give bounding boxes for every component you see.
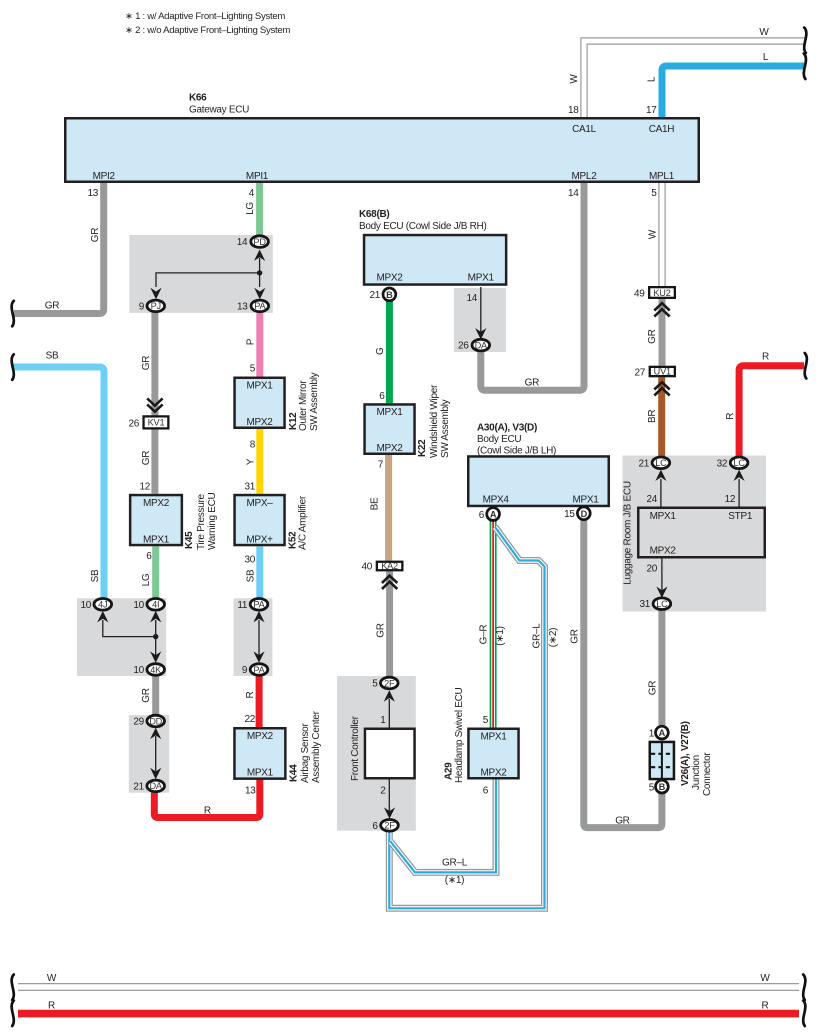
arrow into 4K — [150, 651, 161, 662]
wire GR KU2 to UV1 — [659, 299, 666, 366]
svg-text:DA: DA — [150, 781, 163, 791]
svg-text:UV1: UV1 — [654, 367, 671, 377]
svg-text:Luggage Room J/B ECU: Luggage Room J/B ECU — [623, 481, 634, 585]
connector LC pin 21 — [652, 457, 670, 469]
connector 2F pin 5 with arrow — [381, 677, 399, 689]
svg-text:PA: PA — [254, 301, 266, 311]
svg-text:W: W — [569, 74, 580, 84]
svg-text:SB: SB — [245, 569, 256, 582]
wire Y K12 pin8 to K52 pin31 — [256, 429, 263, 494]
svg-text:13: 13 — [245, 786, 256, 797]
wire R DA(21) to K44 pin13 — [154, 780, 259, 818]
svg-text:4J: 4J — [98, 600, 107, 610]
shield area Front Controller — [337, 676, 416, 831]
svg-text:4I: 4I — [152, 600, 159, 610]
chevron up below KU2 — [654, 303, 669, 316]
svg-text:W: W — [760, 973, 770, 984]
svg-text:5: 5 — [651, 188, 657, 199]
svg-text:B: B — [659, 782, 666, 792]
svg-text:K22: K22 — [417, 439, 428, 457]
ECU K52 A/C Amplifier — [235, 495, 309, 550]
lead lines LC to inner box — [661, 479, 739, 507]
svg-text:LC: LC — [733, 458, 745, 468]
svg-text:Headlamp Swivel ECU: Headlamp Swivel ECU — [454, 687, 465, 783]
svg-text:15: 15 — [564, 509, 575, 520]
svg-text:26: 26 — [128, 419, 139, 430]
shield area PD/PJ/PA — [129, 235, 272, 313]
svg-text:MPX1: MPX1 — [143, 534, 170, 545]
svg-text:MPX1: MPX1 — [480, 732, 507, 743]
lead lines 4J/4I to 4K with junction — [103, 620, 156, 659]
svg-text:21: 21 — [369, 290, 380, 301]
svg-text:MPX2: MPX2 — [480, 768, 507, 779]
lead line junction to PJ — [156, 273, 260, 287]
connector DA pin 26 — [472, 339, 490, 351]
svg-text:5: 5 — [372, 679, 378, 690]
svg-text:14: 14 — [568, 188, 579, 199]
svg-text:Windshield Wiper: Windshield Wiper — [429, 384, 440, 458]
svg-text:MPX1: MPX1 — [246, 381, 273, 392]
svg-text:KU2: KU2 — [653, 288, 670, 298]
svg-text:MPI1: MPI1 — [246, 171, 269, 182]
svg-text:(∗1): (∗1) — [445, 875, 464, 886]
svg-text:Tire Pressure: Tire Pressure — [196, 494, 207, 550]
wire GR KA2 to 2F(5) — [386, 571, 393, 677]
svg-text:31: 31 — [639, 599, 650, 610]
connector A pin 6 — [487, 508, 500, 521]
lead line PD to junction — [259, 258, 261, 273]
svg-text:R: R — [762, 352, 769, 363]
svg-text:GR: GR — [141, 451, 152, 465]
svg-text:MPX2: MPX2 — [376, 443, 403, 454]
arrow into PA(13) — [254, 288, 265, 299]
shield area 4J/4I/4K — [77, 598, 166, 676]
Luggage Room inner block MPX1/STP1/MPX2 — [638, 508, 765, 558]
lead line PA to PA — [258, 620, 260, 659]
svg-text:Body ECU (Cowl Side J/B RH): Body ECU (Cowl Side J/B RH) — [359, 221, 487, 232]
svg-text:49: 49 — [634, 289, 645, 300]
svg-text:6: 6 — [479, 510, 485, 521]
arrow into LC32 — [734, 470, 745, 481]
break squiggle W top right — [804, 28, 806, 54]
svg-text:MPX4: MPX4 — [483, 495, 510, 506]
lead line FC to 2F(6) — [388, 779, 390, 812]
ECU K45 Tire Pressure Warning ECU — [130, 492, 218, 550]
svg-text:Assembly Center: Assembly Center — [311, 710, 322, 783]
svg-text:PA: PA — [253, 665, 265, 675]
connector PA pin 13 — [251, 300, 269, 312]
arrow into LC31 — [656, 587, 667, 598]
wire GR 4K(10) to DD(29) — [152, 676, 159, 715]
svg-text:SB: SB — [46, 351, 59, 362]
arrow into LC21 — [655, 470, 666, 481]
wire G from B(21) to K22 pin6 — [386, 301, 393, 403]
ECU A30(A),V3(D) Body ECU (Cowl Side J/B LH) — [468, 423, 609, 506]
svg-text:STP1: STP1 — [728, 511, 753, 522]
svg-text:4: 4 — [249, 188, 255, 199]
Front Controller block — [350, 715, 415, 781]
svg-text:MPX2: MPX2 — [376, 273, 403, 284]
svg-text:(∗1): (∗1) — [495, 626, 506, 645]
svg-text:27: 27 — [634, 368, 645, 379]
shield area K68 DA — [454, 288, 506, 352]
connector KV1 pin 26 — [128, 416, 168, 429]
svg-text:Y: Y — [245, 458, 256, 465]
wire BE K22 pin7 to KA2 — [385, 455, 392, 561]
svg-text:G: G — [375, 347, 386, 355]
wire GR LC(31) to junction connector A(1) — [658, 610, 665, 727]
wire GR from D(15) of A30 to B(5) of junction connector — [584, 520, 662, 827]
svg-text:(∗2): (∗2) — [548, 628, 559, 647]
lead line to LC31 — [661, 559, 663, 592]
svg-text:Body ECU: Body ECU — [477, 434, 521, 445]
wire W from MPL1 pin 5 to KU2 — [658, 183, 665, 288]
svg-text:A/C Amplifier: A/C Amplifier — [298, 495, 309, 550]
connector 4K pin 10 — [147, 664, 165, 676]
svg-text:K66: K66 — [189, 92, 207, 103]
svg-text:24: 24 — [646, 494, 657, 505]
svg-text:MPX2: MPX2 — [143, 498, 170, 509]
svg-text:SB: SB — [90, 569, 101, 582]
svg-text:GR: GR — [615, 816, 629, 827]
svg-text:9: 9 — [139, 301, 145, 312]
connector DD pin 29 with arrow — [150, 728, 161, 739]
svg-text:20: 20 — [646, 564, 657, 575]
svg-text:Outer Mirror: Outer Mirror — [298, 380, 309, 431]
break squiggle GR left — [12, 301, 14, 327]
svg-text:GR: GR — [647, 329, 658, 343]
svg-text:K45: K45 — [184, 531, 195, 549]
connector KA2 pin 40 — [361, 561, 402, 573]
svg-text:GR: GR — [141, 356, 152, 370]
svg-text:11: 11 — [237, 600, 248, 611]
svg-text:LC: LC — [656, 599, 668, 609]
lead line junction to PA — [259, 273, 261, 287]
connector DA pin 21 — [147, 780, 165, 792]
svg-text:6: 6 — [372, 821, 378, 832]
connector B pin 21 — [383, 288, 396, 301]
svg-text:∗ 1 : w/ Adaptive Front–Lighti: ∗ 1 : w/ Adaptive Front–Lighting System — [125, 11, 285, 22]
svg-text:1: 1 — [380, 715, 386, 726]
svg-text:LG: LG — [245, 202, 256, 215]
break squiggle SB left — [12, 354, 14, 380]
connector PA pin 9 — [250, 664, 268, 676]
wire BR UV1 to LC(21) — [658, 377, 665, 457]
svg-text:L: L — [647, 76, 658, 82]
svg-text:21: 21 — [638, 458, 649, 469]
wire GR-L (*1) from A29 pin6 to 2F(6) — [391, 780, 497, 873]
chevron up below KA2 — [382, 576, 397, 589]
wire GR from MPI2 pin 13 to left break — [14, 183, 104, 314]
svg-text:GR: GR — [141, 688, 152, 702]
svg-text:MPI2: MPI2 — [93, 171, 116, 182]
svg-text:18: 18 — [568, 105, 579, 116]
svg-text:Gateway ECU: Gateway ECU — [189, 104, 249, 115]
svg-text:14: 14 — [237, 237, 248, 248]
svg-text:8: 8 — [250, 440, 256, 451]
svg-text:MPL2: MPL2 — [572, 171, 598, 182]
svg-text:GR–L: GR–L — [442, 858, 468, 869]
svg-text:LG: LG — [141, 573, 152, 586]
svg-text:GR: GR — [569, 629, 580, 643]
shield area PA11/PA9 — [234, 598, 273, 676]
svg-text:5: 5 — [649, 782, 655, 793]
wire GR from MPL2 pin 14 to DA(26) — [481, 183, 584, 390]
wire LG from MPI1 pin 4 to PD — [256, 183, 263, 238]
ECU K12 Outer Mirror SW Assembly — [235, 372, 320, 431]
wire L from CA1H pin 17 to right break — [662, 66, 804, 117]
svg-text:MPX2: MPX2 — [246, 417, 273, 428]
connector D pin 15 — [577, 507, 590, 520]
connector 2F pin 6 — [381, 820, 399, 832]
svg-text:9: 9 — [242, 665, 248, 676]
break squiggle L top right — [804, 54, 806, 80]
svg-text:22: 22 — [244, 714, 255, 725]
shield area DD/DA — [129, 715, 169, 793]
ECU K22 Windshield Wiper SW Assembly — [365, 384, 451, 458]
wire GR-L (*2) from A(6) of A30 to 2F(6) — [389, 527, 544, 908]
svg-text:CA1H: CA1H — [649, 124, 675, 135]
svg-text:PA: PA — [253, 600, 265, 610]
svg-text:W: W — [47, 973, 57, 984]
chevron up below UV1 — [654, 382, 669, 395]
svg-text:SW Assembly: SW Assembly — [440, 399, 451, 458]
arrow into 2F(6) — [384, 807, 395, 818]
break squiggle R right — [805, 353, 807, 379]
svg-text:13: 13 — [237, 301, 248, 312]
wire G-R (*1) from A(6) of A30 to A29 pin5 — [490, 521, 497, 728]
svg-text:GR: GR — [45, 301, 59, 312]
svg-text:6: 6 — [379, 391, 385, 402]
svg-text:6: 6 — [146, 551, 152, 562]
wire R PA(9) to K44 pin22 — [256, 676, 263, 727]
svg-text:K44: K44 — [289, 764, 300, 782]
chevron down above KV1 — [147, 398, 162, 411]
svg-text:(Cowl Side J/B LH): (Cowl Side J/B LH) — [477, 446, 556, 457]
svg-text:GR: GR — [375, 623, 386, 637]
wire W bottom bus — [18, 983, 799, 991]
svg-text:GR: GR — [90, 228, 101, 242]
svg-text:10: 10 — [133, 600, 144, 611]
connector LC pin 31 — [653, 598, 671, 610]
lead line K68 MPX1 to DA — [480, 287, 482, 334]
svg-text:P: P — [245, 338, 256, 345]
wire LG K45 pin6 to 4I(10) — [152, 546, 159, 598]
svg-text:K68(B): K68(B) — [359, 209, 389, 220]
connector KU2 pin 49 — [634, 287, 675, 299]
svg-text:31: 31 — [244, 482, 255, 493]
svg-text:R: R — [204, 806, 211, 817]
svg-text:MPX1: MPX1 — [572, 495, 599, 506]
svg-text:R: R — [725, 413, 736, 420]
svg-text:B: B — [386, 290, 393, 300]
svg-text:R: R — [762, 1001, 769, 1012]
svg-text:GR: GR — [647, 681, 658, 695]
svg-text:W: W — [759, 27, 769, 38]
svg-text:26: 26 — [458, 341, 469, 352]
svg-text:∗ 2 : w/o Adaptive Front–Light: ∗ 2 : w/o Adaptive Front–Lighting System — [125, 25, 290, 36]
ECU K66 Gateway ECU — [65, 92, 699, 182]
svg-text:Connector: Connector — [702, 752, 713, 796]
svg-text:R: R — [48, 1001, 55, 1012]
svg-text:12: 12 — [139, 482, 150, 493]
svg-text:17: 17 — [646, 105, 657, 116]
wire R from right break to LC(32) — [739, 366, 804, 457]
svg-text:14: 14 — [466, 293, 477, 304]
svg-text:CA1L: CA1L — [572, 124, 597, 135]
svg-text:10: 10 — [133, 665, 144, 676]
svg-text:Front Controller: Front Controller — [350, 715, 361, 781]
svg-text:MPX1: MPX1 — [376, 407, 403, 418]
svg-text:5: 5 — [250, 364, 256, 375]
svg-text:DA: DA — [475, 340, 488, 350]
svg-text:13: 13 — [87, 188, 98, 199]
wire W from CA1L pin 18 to right break — [584, 41, 806, 117]
svg-text:Airbag Sensor: Airbag Sensor — [300, 723, 311, 783]
svg-text:MPX2: MPX2 — [650, 546, 677, 557]
svg-text:BE: BE — [370, 497, 381, 510]
svg-text:PD: PD — [253, 237, 266, 247]
svg-text:21: 21 — [133, 782, 144, 793]
wire R bottom bus — [18, 1010, 799, 1018]
svg-text:MPL1: MPL1 — [649, 171, 675, 182]
svg-text:L: L — [763, 52, 769, 63]
svg-text:29: 29 — [133, 717, 144, 728]
svg-text:SW Assembly: SW Assembly — [309, 372, 320, 431]
svg-text:A: A — [490, 510, 497, 520]
svg-text:Warning ECU: Warning ECU — [207, 492, 218, 550]
svg-text:Junction: Junction — [691, 755, 702, 790]
svg-text:MPX1: MPX1 — [468, 273, 495, 284]
svg-text:4K: 4K — [150, 665, 162, 675]
svg-text:32: 32 — [717, 458, 728, 469]
svg-text:6: 6 — [483, 786, 489, 797]
svg-text:40: 40 — [361, 562, 372, 573]
junction connector V26(A),V27(B) — [649, 721, 713, 796]
svg-text:LC: LC — [655, 458, 667, 468]
junction node dot — [257, 270, 262, 275]
connector PA pin 11 with arrow — [253, 611, 264, 622]
svg-text:DD: DD — [149, 716, 162, 726]
svg-text:30: 30 — [244, 555, 255, 566]
svg-text:PJ: PJ — [151, 301, 161, 311]
svg-text:12: 12 — [725, 494, 736, 505]
svg-text:A29: A29 — [444, 762, 455, 780]
svg-text:1: 1 — [649, 728, 655, 739]
svg-text:MPX1: MPX1 — [247, 767, 274, 778]
arrow into DA(21) — [150, 768, 161, 779]
svg-text:2: 2 — [380, 786, 386, 797]
svg-text:2F: 2F — [384, 678, 395, 688]
svg-text:A: A — [659, 728, 666, 738]
svg-text:MPX+: MPX+ — [246, 534, 273, 545]
svg-text:10: 10 — [80, 600, 91, 611]
wire SB K52 pin30 to PA(11) — [256, 546, 263, 598]
shield area Luggage Room J/B ECU — [623, 456, 767, 612]
svg-text:G–R: G–R — [479, 625, 490, 645]
connector UV1 pin 27 — [634, 367, 674, 379]
wire GR from PJ(9) to KV1 and K45 — [151, 313, 158, 494]
wire P from PA(13) to K12 pin 5 — [256, 313, 263, 377]
connector 4J pin 10 with arrow — [97, 611, 108, 622]
arrow into PA(9) — [253, 651, 264, 662]
connector 4I pin 10 with arrow — [150, 611, 161, 622]
connector LC pin 32 — [730, 457, 748, 469]
wire SB from left break to 4J(10) — [14, 367, 105, 599]
svg-text:KA2: KA2 — [381, 561, 398, 571]
arrow into PJ(9) — [150, 288, 161, 299]
svg-text:A30(A), V3(D): A30(A), V3(D) — [477, 423, 537, 434]
svg-text:GR–L: GR–L — [532, 623, 543, 649]
svg-text:V26(A), V27(B): V26(A), V27(B) — [680, 721, 691, 786]
arrow into DA(26) — [475, 328, 486, 339]
svg-text:7: 7 — [378, 460, 384, 471]
svg-text:D: D — [581, 509, 588, 519]
svg-text:5: 5 — [483, 715, 489, 726]
svg-text:2F: 2F — [384, 821, 395, 831]
connector PJ pin 9 — [147, 300, 165, 312]
svg-text:KV1: KV1 — [148, 418, 165, 428]
svg-text:MPX–: MPX– — [246, 498, 273, 509]
svg-text:GR: GR — [525, 378, 539, 389]
svg-text:MPX2: MPX2 — [247, 731, 274, 742]
svg-text:R: R — [245, 691, 256, 698]
ECU K44 Airbag Sensor Assembly Center — [234, 710, 322, 783]
lead line DD to DA — [155, 736, 157, 774]
svg-text:W: W — [648, 229, 659, 239]
svg-text:BR: BR — [647, 410, 658, 423]
ECU A29 Headlamp Swivel ECU — [444, 687, 519, 783]
ECU K68(B) Body ECU (Cowl Side J/B RH) — [359, 209, 506, 285]
svg-text:MPX1: MPX1 — [650, 511, 677, 522]
